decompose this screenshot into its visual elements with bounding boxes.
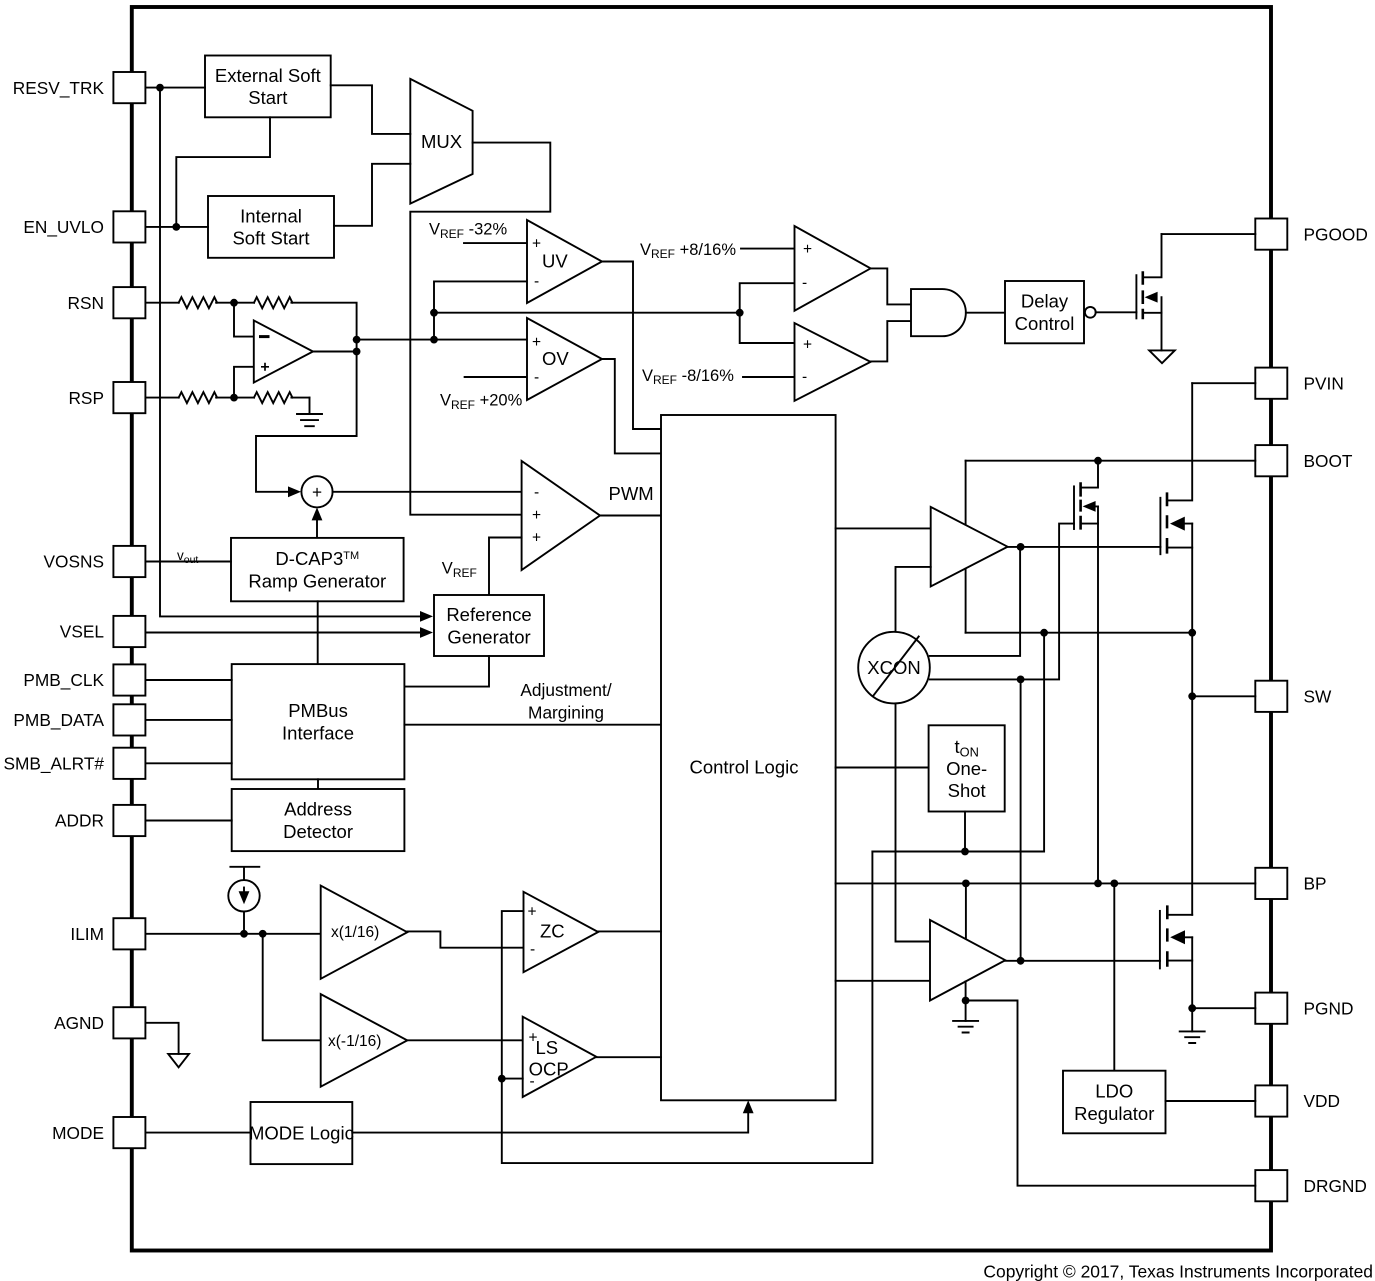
pin PGND xyxy=(1255,993,1353,1024)
wire: HS driver output to HS FET gate xyxy=(1008,546,1161,548)
op-amp U1 remote sense amplifier xyxy=(254,321,313,383)
junction: RSN divider node xyxy=(230,299,238,307)
wire: tap to LS OCP - input xyxy=(502,1078,523,1080)
wire: VSEL pin to Reference Generator input xyxy=(146,632,425,634)
svg-text:SW: SW xyxy=(1304,687,1333,707)
junction: LS driver return node xyxy=(962,997,970,1005)
svg-text:Detector: Detector xyxy=(283,821,353,842)
wire: PMBus to Address Detector xyxy=(317,779,319,789)
resistor R4 (RSP to ground) xyxy=(254,392,292,403)
current source (ILIM bias) xyxy=(228,867,259,912)
junction: SW rail sense tap xyxy=(1040,629,1048,637)
svg-text:Regulator: Regulator xyxy=(1074,1103,1154,1124)
resistor R2 (RSN feedback) xyxy=(254,297,292,308)
wire: sense to +/-8/16 comparators xyxy=(434,312,740,314)
svg-text:MODE Logic: MODE Logic xyxy=(249,1123,354,1144)
svg-text:Start: Start xyxy=(248,87,287,108)
wire: UV output to Control Logic xyxy=(602,262,661,430)
pin VSEL xyxy=(60,616,146,647)
wire: RSN node segment xyxy=(216,302,254,304)
wire: ILIM to x(-1/16) xyxy=(263,934,321,1041)
wire: PGOOD FET drain to PGOOD pin xyxy=(1162,233,1256,235)
svg-text:-: - xyxy=(534,273,539,290)
wire: XCON top to HS driver input 2 xyxy=(896,567,931,632)
wire: D-CAP3 ramp to summing node xyxy=(316,514,318,538)
junction: PGND node xyxy=(1188,1004,1196,1012)
pin BOOT xyxy=(1255,445,1353,476)
svg-text:PGND: PGND xyxy=(1304,998,1354,1018)
wire: D-CAP3 to PMBus Interface xyxy=(317,601,319,664)
wire: BOOT rail to HS driver supply xyxy=(965,461,967,525)
wire: up to UV- input xyxy=(434,281,527,339)
svg-text:OV: OV xyxy=(542,348,569,369)
svg-text:XCON: XCON xyxy=(867,657,920,678)
wire: LS FET source to PGND xyxy=(1192,937,1255,1008)
transistor Q2 bootstrap switch MOSFET xyxy=(1074,461,1098,530)
pin VOSNS xyxy=(43,546,145,577)
svg-text:PGOOD: PGOOD xyxy=(1304,224,1368,244)
svg-text:BOOT: BOOT xyxy=(1304,451,1353,471)
pin RSP xyxy=(68,382,145,413)
wire: RSN node to op-amp inverting input xyxy=(234,303,254,337)
ground symbol (PGOOD FET source, triangle) xyxy=(1149,350,1175,363)
svg-text:MODE: MODE xyxy=(52,1123,104,1143)
comparator ZC zero cross xyxy=(524,892,599,972)
svg-text:-: - xyxy=(534,369,539,386)
junction: SW rail at FET leg xyxy=(1188,629,1196,637)
junction: BP to LDO xyxy=(1110,880,1118,888)
pin ILIM xyxy=(70,918,145,949)
wire: PWM comparator output to Control Logic xyxy=(600,515,661,517)
svg-text:+: + xyxy=(532,507,541,524)
wire: SW rail to SW pin xyxy=(1192,695,1255,697)
svg-text:+: + xyxy=(532,334,541,351)
arrowhead into Reference Generator input 1 xyxy=(420,611,433,622)
svg-text:Copyright © 2017, Texas Instru: Copyright © 2017, Texas Instruments Inco… xyxy=(983,1262,1373,1281)
svg-text:+: + xyxy=(312,482,322,502)
svg-text:+: + xyxy=(532,530,541,547)
svg-text:Control Logic: Control Logic xyxy=(689,757,798,778)
pin SW xyxy=(1255,681,1332,712)
comparator OV xyxy=(527,318,602,400)
wire: PVIN pin to HS FET drain xyxy=(1192,382,1255,384)
ground symbol (LS FET source) xyxy=(1180,1008,1205,1043)
wire: VREF+20% to OV- input xyxy=(465,376,527,378)
wire: MODE Logic output to Control Logic xyxy=(352,1109,748,1133)
wire: OV output to Control Logic xyxy=(602,359,661,453)
svg-text:+: + xyxy=(803,337,812,354)
comparator LS OCP xyxy=(523,1017,597,1097)
pin PVIN xyxy=(1255,368,1344,399)
block: tON One-Shot xyxy=(929,725,1005,811)
wire: External Soft Start output to MUX input 1 xyxy=(331,85,411,134)
wire: RESV_TRK pin to External Soft Start xyxy=(146,87,206,89)
svg-text:DRGND: DRGND xyxy=(1304,1176,1367,1196)
wire: ZC output to Control Logic xyxy=(598,930,661,932)
wire: PMB_CLK pin to PMBus xyxy=(146,679,232,681)
svg-text:PMBus: PMBus xyxy=(288,700,348,721)
wire: lower comparator output to AND xyxy=(871,321,911,361)
wire: Control Logic to One-Shot xyxy=(836,767,929,769)
svg-text:VDD: VDD xyxy=(1304,1091,1341,1111)
wire: VOSNS pin to D-CAP3 xyxy=(146,561,232,563)
pin SMB_ALRT# xyxy=(3,748,145,779)
junction: sense rail tap xyxy=(430,336,438,344)
pin RESV_TRK xyxy=(13,72,146,103)
wire: x(-1/16) output to LS OCP + input xyxy=(407,1039,522,1041)
pin DRGND xyxy=(1255,1170,1367,1201)
svg-text:Internal: Internal xyxy=(240,205,302,226)
block: Address Detector xyxy=(232,789,405,851)
wire: BP rail from Control Logic xyxy=(836,882,1256,884)
block: Delay Control xyxy=(1005,281,1084,343)
svg-text:Interface: Interface xyxy=(282,723,354,744)
svg-text:Margining: Margining xyxy=(528,703,604,723)
junction: XCON LS-gate tap xyxy=(1017,676,1025,684)
junction: BOOT node at bootstrap FET xyxy=(1094,457,1102,465)
pin RSN xyxy=(68,287,146,318)
wire: current source to ILIM line xyxy=(243,912,245,934)
comparator PWM xyxy=(522,461,600,570)
summing node (+) xyxy=(301,476,332,507)
wire: LDO output to VDD pin xyxy=(1166,1100,1256,1102)
wire: to lower comparator + input xyxy=(740,313,795,343)
wire: XCON to LS gate and boot FET gate xyxy=(930,524,1074,680)
ground symbol (RSP divider) xyxy=(297,398,322,427)
junction: ILIM node 1 xyxy=(240,930,248,938)
wire: VREF-8/16% to comparator - input xyxy=(743,376,795,378)
svg-text:AGND: AGND xyxy=(54,1013,104,1033)
junction: SW sense tap for LS OCP xyxy=(498,1075,506,1083)
wire: PMB_DATA pin to PMBus xyxy=(146,719,232,721)
svg-text:Address: Address xyxy=(284,798,352,819)
svg-text:Shot: Shot xyxy=(948,780,986,801)
arrowhead MODE into Control Logic xyxy=(743,1100,754,1113)
wire: ADDR pin to Address Detector xyxy=(146,820,232,822)
wire: RSP node to op-amp noninverting input xyxy=(234,367,254,398)
pin ADDR xyxy=(55,805,145,836)
svg-text:-: - xyxy=(534,484,539,501)
comparator PGOOD low threshold xyxy=(795,323,871,401)
junction: ILIM node 2 xyxy=(259,930,267,938)
wire: LS driver output to LS FET gate xyxy=(1005,960,1160,962)
svg-text:Adjustment/: Adjustment/ xyxy=(520,680,611,700)
inverter bubble on Delay Control output xyxy=(1085,307,1096,318)
wire: Reference Generator to PMBus xyxy=(404,656,489,687)
svg-text:MUX: MUX xyxy=(421,131,462,152)
wire: HS driver return to SW rail xyxy=(965,569,967,633)
pin PGOOD xyxy=(1255,219,1368,250)
wire: SW rail from driver return xyxy=(966,632,1193,634)
svg-text:LS: LS xyxy=(536,1037,559,1058)
svg-text:Control: Control xyxy=(1015,313,1075,334)
svg-text:ADDR: ADDR xyxy=(55,811,104,831)
junction: SW pin node xyxy=(1188,692,1196,700)
comparator PGOOD high threshold xyxy=(795,226,871,311)
block: MODE Logic xyxy=(249,1102,354,1164)
transistor Q1 PGOOD open-drain MOSFET xyxy=(1136,234,1161,319)
wire: VREF to PWM comparator input 3 xyxy=(489,538,522,596)
pin VDD xyxy=(1255,1085,1340,1116)
junction: EN_UVLO node xyxy=(172,223,180,231)
junction: BP to bootstrap FET source xyxy=(1094,880,1102,888)
svg-text:x(-1/16): x(-1/16) xyxy=(328,1033,381,1050)
wire: RSP node segment xyxy=(216,397,254,399)
svg-text:-: - xyxy=(530,1073,535,1090)
junction: One-Shot tap on SW sense xyxy=(961,848,969,856)
pin AGND xyxy=(54,1007,145,1038)
svg-text:VOSNS: VOSNS xyxy=(43,552,104,572)
wire: MUX output to PWM comparator + input xyxy=(410,143,550,515)
wire: to upper comparator - input xyxy=(740,283,795,313)
block: D-CAP3 Ramp Generator xyxy=(231,538,404,601)
wire: LS driver return to DRGND xyxy=(966,1001,1256,1186)
junction: RSP divider node xyxy=(230,394,238,402)
arrowhead ramp into summing node xyxy=(312,507,323,520)
block: Control Logic xyxy=(661,415,836,1100)
svg-text:PWM: PWM xyxy=(609,483,654,504)
wire: EN_UVLO pin to Internal Soft Start xyxy=(146,226,209,228)
junction: feedback rail node xyxy=(353,336,361,344)
svg-text:RSN: RSN xyxy=(68,293,105,313)
wire: MODE pin to MODE Logic xyxy=(146,1132,251,1134)
svg-text:RESV_TRK: RESV_TRK xyxy=(13,78,105,98)
wire: XCON to HS gate node xyxy=(930,547,1020,656)
arrowhead into summing node xyxy=(288,486,301,497)
svg-text:PVIN: PVIN xyxy=(1304,373,1344,393)
mux MUX xyxy=(410,79,472,204)
svg-text:x(1/16): x(1/16) xyxy=(331,924,379,941)
comparator UV xyxy=(527,220,602,303)
ground symbol (LS driver return) xyxy=(953,1001,978,1033)
svg-text:-: - xyxy=(802,369,807,386)
svg-text:ZC: ZC xyxy=(540,920,565,941)
block: LDO Regulator xyxy=(1063,1071,1166,1134)
junction: cross-monitor tap xyxy=(430,309,438,317)
wire: VREF+8/16% to comparator + input xyxy=(741,248,795,250)
amplifier x(1/16) xyxy=(321,886,408,979)
junction: op-amp output node A xyxy=(353,348,361,356)
junction: RESV_TRK node xyxy=(156,84,164,92)
transistor Q4 low-side power MOSFET xyxy=(1160,905,1192,968)
wire: XCON tap down to LS gate node xyxy=(1020,679,1022,960)
svg-text:+: + xyxy=(803,241,812,258)
svg-text:External Soft: External Soft xyxy=(215,65,321,86)
svg-text:UV: UV xyxy=(542,250,568,271)
svg-text:Reference: Reference xyxy=(446,604,531,625)
svg-text:ILIM: ILIM xyxy=(70,924,104,944)
wire: VREF-32% to UV+ input xyxy=(464,242,527,244)
wire: x(1/16) output to ZC - input xyxy=(407,931,523,947)
block: Reference Generator xyxy=(434,595,544,656)
wire: XCON bottom to LS driver input 2 xyxy=(896,703,931,941)
buffer HS gate driver xyxy=(931,507,1008,587)
block: PMBus Interface xyxy=(232,664,405,779)
junction: LS gate node xyxy=(1017,957,1025,965)
wire: ILIM pin to x(1/16) xyxy=(146,933,321,935)
wire: RESV_TRK down to Reference Generator input xyxy=(160,88,424,617)
wire: summing node to PWM comparator - input xyxy=(333,491,522,493)
junction: right comparator pair node xyxy=(736,309,744,317)
wire: BP to LS driver supply xyxy=(965,883,967,938)
wire: Delay Control to PGOOD FET gate xyxy=(1096,311,1137,313)
svg-text:PMB_DATA: PMB_DATA xyxy=(13,710,104,730)
svg-text:One-: One- xyxy=(946,758,987,779)
wire: AND output to Delay Control xyxy=(966,312,1005,314)
svg-text:-: - xyxy=(802,275,807,292)
AND gate xyxy=(911,289,966,336)
wire: bootstrap FET source to BP rail xyxy=(1097,506,1099,883)
wire: BP rail to LDO input xyxy=(1113,883,1115,1070)
resistor R1 (RSN input) xyxy=(179,297,217,308)
wire: RSP pin to resistor xyxy=(146,397,179,399)
junction: HS gate node xyxy=(1017,543,1025,551)
wire: One-Shot to SW sense line xyxy=(964,812,966,852)
svg-text:BP: BP xyxy=(1304,874,1327,894)
svg-text:RSP: RSP xyxy=(68,388,104,408)
net label Adjustment/Margining xyxy=(520,680,611,722)
svg-text:Generator: Generator xyxy=(447,626,530,647)
wire: External Soft Start bottom to EN_UVLO node xyxy=(176,117,270,227)
wire: upper comparator output to AND xyxy=(871,268,911,304)
transistor Q3 high-side power MOSFET xyxy=(1160,383,1192,554)
pin EN_UVLO xyxy=(23,211,145,242)
svg-text:-: - xyxy=(530,941,535,958)
wire: BOOT rail xyxy=(966,460,1256,462)
wire: Internal Soft Start output to MUX input 2 xyxy=(334,164,410,226)
wire: Control Logic to LS driver input xyxy=(836,980,930,982)
pin PMB_CLK xyxy=(23,664,145,695)
wire: SMB_ALRT# pin to PMBus xyxy=(146,762,232,764)
svg-text:LDO: LDO xyxy=(1095,1080,1133,1101)
buffer LS gate driver xyxy=(930,920,1005,1001)
wire: op-amp output xyxy=(313,351,357,353)
svg-text:VSEL: VSEL xyxy=(60,622,105,642)
svg-text:+: + xyxy=(528,903,537,920)
svg-text:Delay: Delay xyxy=(1021,291,1069,312)
block XCON anti-cross-conduction xyxy=(858,632,930,704)
amplifier x(-1/16) xyxy=(321,994,408,1087)
wire: sense rail to OV+ and UV- xyxy=(357,339,527,341)
pin BP xyxy=(1255,868,1326,899)
wire: LS driver return xyxy=(965,981,967,1000)
svg-text:Ramp Generator: Ramp Generator xyxy=(248,570,386,591)
wire: PMBus adjustment to Control Logic xyxy=(404,724,661,726)
svg-text:EN_UVLO: EN_UVLO xyxy=(23,217,104,237)
resistor R3 (RSP input) xyxy=(179,392,217,403)
pin PMB_DATA xyxy=(13,704,145,735)
wire: PGOOD FET source down xyxy=(1161,313,1163,351)
block: External Soft Start xyxy=(205,56,331,118)
wire: SW sense line to SW rail xyxy=(872,633,1044,852)
junction: BP to LS driver supply xyxy=(962,880,970,888)
svg-text:PMB_CLK: PMB_CLK xyxy=(23,670,104,690)
svg-text:+: + xyxy=(532,236,541,253)
svg-text:SMB_ALRT#: SMB_ALRT# xyxy=(3,754,104,774)
wire: RSN pin to resistor xyxy=(146,302,179,304)
wire: SW node vertical xyxy=(1191,524,1193,915)
wire: AGND pin stub xyxy=(146,1023,179,1054)
wire: Control Logic to HS driver input xyxy=(836,527,931,529)
wire: SW sense to ZC + input xyxy=(502,852,873,1164)
ground symbol AGND (open arrow) xyxy=(168,1054,189,1067)
pin MODE xyxy=(52,1117,145,1148)
arrowhead into Reference Generator input 2 xyxy=(420,627,433,638)
wire: LS OCP output to Control Logic xyxy=(596,1056,661,1058)
wire: feedback to op-amp output rail xyxy=(256,303,357,492)
wire: resistor to ground xyxy=(291,397,309,399)
block: Internal Soft Start xyxy=(208,196,334,258)
svg-text:Soft Start: Soft Start xyxy=(232,228,309,249)
